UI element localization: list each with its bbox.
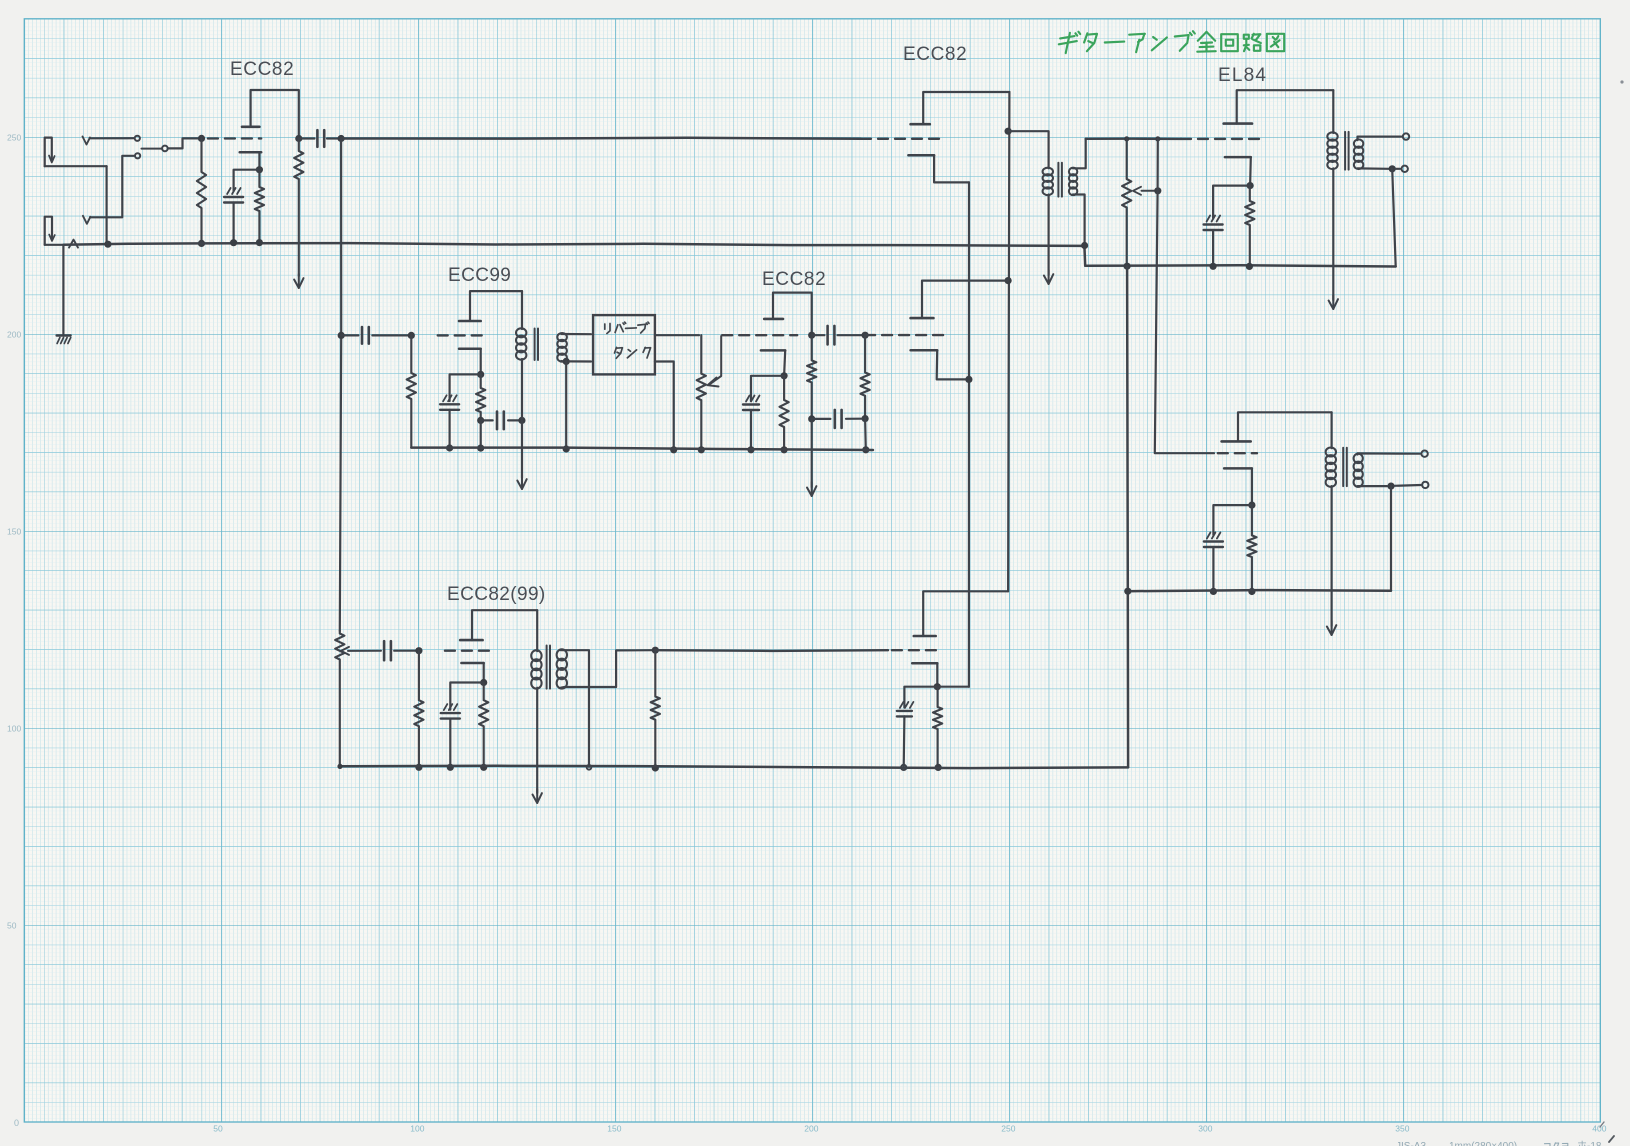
V2 plate lead: [923, 92, 1009, 124]
junction small: [587, 765, 592, 770]
resistor R4 grid leak: [407, 335, 416, 447]
T1 secondary bottom lead: [1073, 195, 1085, 245]
speaker terminal: [1402, 166, 1408, 172]
wire to reverb tank: [570, 360, 592, 362]
svg-text:200: 200: [7, 330, 21, 340]
triode V4a ECC82: [764, 318, 783, 321]
wire T2 return to rail: [565, 361, 567, 449]
check mark: [83, 137, 91, 145]
junction: [446, 444, 453, 451]
junction: [1005, 128, 1012, 135]
junction: [447, 764, 454, 771]
svg-text:250: 250: [7, 133, 21, 143]
resistor R5 cathode: [476, 374, 485, 420]
junction: [1387, 483, 1394, 490]
wire C11 to node F: [394, 650, 415, 652]
wire to driver transformer: [1008, 131, 1049, 168]
wire C2 to ground bus: [233, 203, 235, 243]
triode V7 ECC82(99): [460, 639, 482, 642]
resistor R11 cathode: [479, 683, 488, 768]
triode V2 ECC82: [911, 123, 930, 126]
junction node E: [862, 332, 869, 339]
wire R9 to rail: [864, 419, 867, 450]
V7 plate lead: [472, 610, 537, 640]
rail row2 ground: [411, 448, 873, 450]
V8 cathode lead: [936, 663, 938, 686]
junction node F: [415, 647, 422, 654]
junction on ground bus: [1081, 242, 1088, 249]
junction cathode: [781, 372, 788, 379]
resistor R12: [651, 650, 660, 768]
junction on vertical A: [965, 376, 972, 383]
check mark: [83, 216, 91, 224]
junction P2 to ground bus: [1124, 263, 1131, 270]
junction: [1155, 136, 1160, 141]
speaker terminal: [1422, 482, 1428, 488]
V5 plate lead: [1237, 90, 1334, 123]
wire T3 primary to B+: [536, 688, 538, 793]
junction node C: [338, 332, 345, 339]
junction: [808, 415, 815, 422]
wire V3 plate to T2: [521, 291, 523, 329]
wire to C5: [481, 419, 493, 421]
wire cathode to bypass: [904, 687, 937, 708]
svg-text:ECC82: ECC82: [903, 44, 967, 65]
resistor R7 plate load: [807, 335, 816, 419]
junction: [104, 241, 111, 248]
transformer OT1 core: [1344, 132, 1346, 170]
wire C12 to rail: [449, 719, 451, 768]
wire J1 tip to ground bus: [105, 166, 107, 244]
V5 cathode lead: [1249, 157, 1252, 186]
svg-text:150: 150: [607, 1124, 621, 1134]
junction node G: [652, 647, 659, 654]
wire ground bus right leg: [1127, 266, 1128, 767]
junction: [415, 764, 422, 771]
transformer T2 primary: [516, 328, 526, 337]
wire C7 to node E: [838, 334, 866, 336]
resistor R15 cathode: [1245, 186, 1254, 267]
wire row3 signal: [655, 649, 888, 652]
junction: [337, 764, 342, 769]
P1 wiper arrow: [710, 336, 721, 384]
junction node A: [198, 135, 205, 142]
transformer T1 secondary: [1069, 168, 1077, 176]
B+ arrow: [521, 475, 523, 489]
ground bus segment 1: [63, 243, 201, 244]
OT1 secondary top lead: [1358, 137, 1402, 141]
wire C5 to plate line: [508, 419, 519, 421]
wire C6 to rail: [750, 410, 752, 450]
potentiometer P1 reverb level: [697, 335, 706, 450]
B+ arrow: [1332, 295, 1334, 309]
junction wiper: [1154, 187, 1161, 194]
V7 cathode lead: [483, 663, 485, 683]
triode V1a ECC82: [242, 126, 259, 129]
junction: [698, 446, 705, 453]
bottom print: [1396, 1122, 1614, 1146]
wire C13 to rail: [903, 716, 906, 767]
triode V8 ECC82: [914, 635, 936, 638]
transformer T1 core: [1057, 163, 1059, 197]
triode V4b ECC82: [911, 317, 934, 320]
V4a cathode lead: [784, 350, 785, 375]
junction: [563, 358, 570, 365]
capacitor C8 cathode bypass: [1207, 216, 1211, 222]
capacitor C4 cathode bypass: [443, 395, 447, 401]
resistor R16 cathode: [1247, 505, 1256, 591]
transformer T2 core: [534, 329, 536, 361]
V2 cathode lead: [934, 155, 969, 182]
junction: [670, 446, 677, 453]
transformer OT1 primary: [1327, 132, 1337, 140]
junction: [256, 239, 263, 246]
check mark on bus: [69, 240, 78, 248]
svg-text:400: 400: [1592, 1124, 1606, 1134]
svg-text:ECC82: ECC82: [762, 269, 826, 290]
wire V7 plate to T3: [536, 610, 538, 651]
ground: [57, 334, 71, 336]
wire plate to C1: [299, 137, 315, 139]
junction: [1389, 165, 1396, 172]
junction node B: [338, 135, 345, 142]
wire switch pole to node: [168, 138, 199, 148]
B+ arrow: [811, 482, 813, 496]
input jack J2: [45, 217, 52, 245]
wire grid feed to lower output stage: [1155, 139, 1214, 453]
junction: [230, 239, 237, 246]
svg-text:100: 100: [7, 724, 21, 734]
transformer OT2 primary: [1326, 448, 1336, 457]
triode V3 ECC99: [459, 320, 481, 323]
capacitor C7 coupling: [826, 326, 829, 345]
capacitor C9 cathode bypass: [1207, 533, 1211, 539]
speaker terminal: [1421, 451, 1427, 457]
OT1 secondary bottom lead: [1358, 167, 1389, 170]
junction node D: [408, 332, 415, 339]
V1a cathode lead: [258, 152, 260, 169]
capacitor C5: [496, 412, 499, 430]
ground bus segment 3: [1085, 265, 1396, 266]
svg-text:ECC82(99): ECC82(99): [447, 584, 546, 605]
wire node C to C3: [341, 334, 358, 336]
junction R1 to ground bus: [198, 240, 205, 247]
junction: [747, 446, 754, 453]
wire C4 to rail: [449, 410, 451, 448]
T2 secondary bottom lead: [561, 360, 563, 362]
B+ arrow: [1331, 621, 1333, 635]
wire OT1 primary top: [1332, 90, 1334, 133]
V4a plate lead: [773, 293, 812, 336]
wire OT2 primary top: [1330, 412, 1332, 448]
junction: [1124, 136, 1129, 141]
resistor R2 plate load: [294, 139, 303, 277]
wire J2 to switch contact: [90, 156, 135, 218]
junction: [563, 445, 570, 452]
label reverb tank text: [605, 322, 651, 358]
wire OT1 primary to B+: [1332, 168, 1334, 300]
wire plate line to B+: [811, 419, 813, 487]
wire long vertical A (feedback): [968, 182, 970, 686]
potentiometer P3: [335, 631, 344, 767]
capacitor C2 cathode bypass: [227, 188, 231, 194]
OT2 secondary top lead: [1358, 453, 1421, 454]
wire T1 primary to B+: [1047, 195, 1049, 276]
wire jack J2 sleeve to ground: [45, 245, 64, 335]
wire cathode to bypass: [1213, 505, 1252, 535]
rail lower output stage: [1127, 590, 1391, 591]
P3 wiper arrow: [348, 650, 381, 652]
junction: [480, 764, 487, 771]
junction cathode: [934, 683, 941, 690]
wire top rail: [341, 138, 860, 139]
V6 plate lead: [1238, 412, 1332, 441]
capacitor C6 cathode bypass: [746, 396, 750, 402]
svg-text:250: 250: [1001, 1124, 1015, 1134]
wire C1 to node B: [327, 137, 341, 139]
svg-text:1mm(280×400): 1mm(280×400): [1449, 1141, 1517, 1146]
resistor R13 cathode: [933, 687, 942, 768]
junction: [1248, 588, 1255, 595]
wire PI output rail: [1086, 137, 1181, 140]
switch S1 pole: [162, 146, 168, 152]
wire plate node to C7: [812, 334, 825, 336]
svg-text:100: 100: [410, 1124, 424, 1134]
svg-text:ECC82: ECC82: [230, 59, 294, 80]
junction cathode: [477, 371, 484, 378]
junction cathode: [480, 679, 487, 686]
junction: [935, 764, 942, 771]
T3 secondary top lead: [561, 650, 589, 767]
capacitor C12 cathode bypass: [444, 704, 448, 710]
switch S1 arm: [142, 148, 162, 150]
transformer T3 secondary: [557, 649, 567, 660]
junction: [862, 446, 869, 453]
wire cathode to bypass cap: [234, 170, 260, 191]
capacitor C3 coupling: [361, 327, 364, 344]
junction plate node: [808, 332, 815, 339]
svg-text:ECC99: ECC99: [448, 265, 511, 286]
wire OT2 secondary ground drop: [1390, 486, 1392, 591]
input jack J1: [45, 138, 52, 167]
transformer OT1 secondary: [1354, 139, 1363, 147]
wire OT1 secondary to ground bus: [1392, 169, 1396, 267]
wire cathode to bypass: [1213, 186, 1250, 218]
wire C8 to ground bus: [1212, 230, 1214, 266]
svg-text:200: 200: [804, 1124, 818, 1134]
V4b plate lead: [922, 281, 1008, 319]
OT2 secondary bottom lead: [1358, 485, 1388, 487]
wire long vertical B (plate feed): [1008, 92, 1009, 591]
V1a plate lead: [251, 90, 299, 139]
capacitor C13 cathode bypass: [900, 702, 904, 708]
B+ arrow: [536, 789, 538, 803]
wire tank bottom to rail: [655, 362, 674, 450]
svg-text:150: 150: [7, 527, 21, 537]
junction: [1210, 588, 1217, 595]
wire cathode to bypass: [450, 683, 483, 710]
wire C10 to R9: [846, 418, 862, 420]
P2 wiper arrow: [1142, 190, 1158, 192]
svg-text:0: 0: [14, 1118, 19, 1128]
transformer T1 primary: [1043, 168, 1053, 176]
junction cathode: [1247, 182, 1254, 189]
wire long vertical E (signal drop): [340, 139, 341, 631]
junction: [1124, 588, 1131, 595]
ground bus jog down: [1083, 246, 1086, 266]
svg-text:JIS-A3: JIS-A3: [1396, 1141, 1426, 1146]
svg-text:300: 300: [1198, 1124, 1212, 1134]
wire to terminal: [1395, 168, 1400, 170]
junction: [1210, 263, 1217, 270]
resistor R3 cathode: [255, 170, 264, 243]
V3 cathode lead: [480, 349, 482, 375]
junction: [477, 445, 484, 452]
svg-text:50: 50: [7, 921, 17, 931]
junction: [781, 446, 788, 453]
svg-text:ホ-18: ホ-18: [1577, 1140, 1602, 1146]
V6 cathode lead: [1251, 468, 1253, 505]
transformer T2 secondary: [557, 333, 567, 341]
junction: [1246, 263, 1253, 270]
V4b cathode lead: [937, 350, 966, 379]
wire T2 primary down: [521, 359, 523, 478]
transformer OT2 core: [1342, 448, 1344, 486]
reverb tank box: [593, 315, 655, 374]
switch S1 contact a: [135, 136, 140, 141]
wire tank out: [655, 334, 699, 336]
T3 secondary bottom lead: [561, 650, 652, 688]
svg-text:350: 350: [1395, 1124, 1409, 1134]
switch S1 contact b: [135, 153, 140, 158]
junction: [862, 415, 869, 422]
wire cathode to bypass: [751, 376, 784, 401]
wire C9 to rail: [1212, 547, 1214, 591]
capacitor C11 coupling: [383, 641, 386, 660]
capacitor C10: [833, 410, 836, 428]
B+ arrow: [1048, 270, 1050, 284]
potentiometer P2: [1122, 139, 1131, 266]
resistor R9: [861, 335, 870, 418]
pentode V6 EL84: [1222, 440, 1251, 443]
resistor R8 cathode: [780, 376, 789, 450]
svg-text:50: 50: [213, 1124, 223, 1134]
resistor R10 grid leak: [414, 651, 423, 768]
rail row3 ground: [340, 766, 1128, 768]
junction: [1005, 277, 1012, 284]
paper speck: [1620, 80, 1623, 83]
junction plate node: [295, 135, 302, 142]
junction: [652, 764, 659, 771]
wire J1 to switch contact: [90, 137, 135, 139]
ground bus segment 2: [202, 243, 1085, 246]
T1 secondary top lead: [1073, 139, 1086, 169]
junction: [518, 417, 525, 424]
B+ arrow: [298, 274, 300, 288]
transformer T3 core: [546, 646, 548, 689]
pentode V5 EL84: [1224, 122, 1252, 125]
transformer OT2 secondary: [1354, 454, 1363, 463]
junction: [477, 417, 484, 424]
wire node to C10: [812, 418, 831, 420]
capacitor C1 coupling: [316, 130, 319, 147]
V8 plate lead: [923, 591, 1008, 636]
junction cathode node: [256, 166, 263, 173]
wire cathode to feedback line: [937, 686, 969, 688]
wire C3 to node D: [372, 334, 411, 336]
speaker terminal: [1403, 133, 1409, 139]
V3 plate lead: [470, 291, 522, 321]
wire to terminal: [1394, 484, 1421, 487]
junction cathode: [1248, 502, 1255, 509]
transformer T3 primary: [531, 650, 541, 661]
wire R5 leg to rail: [480, 420, 482, 448]
title green handwriting: [1059, 31, 1284, 53]
wire cathode to bypass: [450, 374, 481, 401]
junction: [901, 765, 906, 770]
wire OT2 primary to B+: [1330, 486, 1332, 626]
resistor R1 input grid leak: [197, 138, 206, 243]
T2 secondary top lead: [561, 333, 591, 335]
svg-text:EL84: EL84: [1218, 65, 1267, 86]
